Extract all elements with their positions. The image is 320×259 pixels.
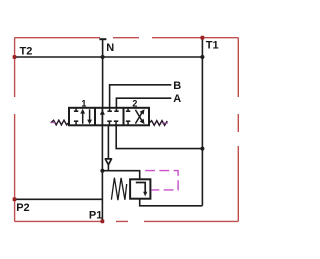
wire carryover to T1	[116, 125, 202, 148]
relief valve pilot dashed line	[142, 171, 178, 190]
enclosure dashed red border right	[237, 38, 239, 222]
wire B	[110, 85, 172, 108]
valve center blocked port top A	[114, 108, 118, 112]
wire pilot with flow marker	[107, 125, 109, 170]
valve center blocked port top B	[108, 108, 112, 112]
valve position 1 down arrow	[87, 109, 92, 124]
port node T2	[13, 55, 17, 59]
valve center blocked port bottom left	[107, 120, 111, 125]
svg-text:T1: T1	[206, 40, 219, 52]
junction dot carryover x T1	[200, 147, 204, 151]
wire relief feed	[102, 171, 139, 180]
relief valve internal arrow	[136, 183, 148, 197]
svg-text:2: 2	[132, 99, 137, 109]
valve position 2 crossed arrows	[135, 109, 144, 124]
wire T2 horizontal	[15, 56, 203, 58]
port node P1	[101, 219, 105, 223]
wire P vertical	[101, 108, 103, 221]
valve position 1 blocked port bottom	[74, 120, 78, 125]
junction dot T1 x T2	[200, 55, 204, 59]
junction dot N x T2	[101, 55, 105, 59]
svg-text:T2: T2	[20, 46, 33, 58]
spring left of valve	[51, 120, 69, 125]
valve position 2 blocked port bottom	[126, 120, 130, 125]
wire A	[116, 98, 171, 108]
enclosure dashed red border bottom	[15, 220, 239, 222]
relief valve spring	[111, 178, 126, 200]
valve V1 body	[69, 108, 149, 126]
port node P2	[13, 197, 17, 201]
wire P2 horizontal	[15, 198, 103, 200]
svg-text:P1: P1	[89, 210, 102, 222]
flow marker open triangle	[105, 159, 111, 165]
valve position 1 up arrow	[80, 109, 85, 124]
wire T1 vertical	[201, 38, 203, 206]
wire relief outlet	[140, 199, 203, 206]
svg-text:P2: P2	[16, 202, 29, 214]
svg-text:N: N	[106, 42, 114, 54]
svg-text:A: A	[173, 93, 181, 105]
enclosure dashed red border left	[14, 38, 16, 222]
wire N vertical	[102, 39, 104, 108]
valve position 2 blocked port top	[126, 108, 130, 112]
enclosure dashed red border top	[15, 37, 239, 39]
svg-text:1: 1	[81, 98, 86, 108]
node N cap	[99, 38, 106, 40]
port node T1	[201, 36, 205, 40]
valve center blocked port bottom right	[114, 120, 118, 125]
spring right of valve	[149, 121, 167, 126]
valve position 1 blocked port top	[74, 108, 78, 112]
junction dot P x relief feed	[100, 169, 104, 173]
svg-text:B: B	[173, 80, 181, 92]
valve center position through line with up arrow	[100, 108, 105, 125]
relief valve RV1 body	[130, 179, 150, 198]
